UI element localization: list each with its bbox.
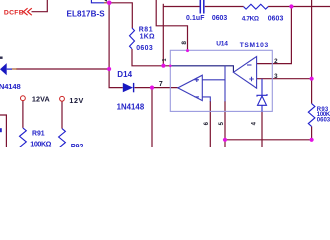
svg-text:1N4148: 1N4148	[0, 82, 21, 91]
svg-text:1: 1	[162, 58, 168, 61]
svg-text:7: 7	[159, 81, 163, 88]
svg-text:U14: U14	[216, 41, 228, 48]
svg-text:R92: R92	[71, 144, 84, 147]
svg-text:R91: R91	[32, 131, 45, 138]
svg-text:R81: R81	[139, 26, 153, 33]
svg-text:2: 2	[274, 58, 278, 65]
svg-text:0603: 0603	[317, 117, 330, 123]
svg-text:0.1uF: 0.1uF	[186, 15, 205, 22]
svg-text:EL817B-S: EL817B-S	[67, 9, 106, 18]
svg-text:12VA: 12VA	[32, 95, 50, 104]
svg-text:12V: 12V	[69, 96, 83, 105]
svg-text:4: 4	[252, 121, 258, 125]
svg-text:D14: D14	[117, 70, 132, 79]
svg-text:TSM103: TSM103	[240, 42, 269, 49]
svg-text:1KΩ: 1KΩ	[140, 34, 155, 41]
svg-text:0603: 0603	[268, 16, 284, 23]
svg-text:DCFB: DCFB	[4, 10, 24, 17]
svg-text:5: 5	[219, 121, 225, 125]
svg-text:8: 8	[181, 41, 188, 45]
svg-text:0603: 0603	[136, 45, 153, 52]
svg-text:4.7KΩ: 4.7KΩ	[242, 16, 259, 23]
svg-text:1N4148: 1N4148	[117, 102, 145, 111]
svg-text:3: 3	[274, 73, 278, 80]
svg-text:0603: 0603	[212, 15, 227, 22]
svg-text:6: 6	[204, 121, 210, 125]
svg-text:100KΩ: 100KΩ	[30, 139, 51, 147]
